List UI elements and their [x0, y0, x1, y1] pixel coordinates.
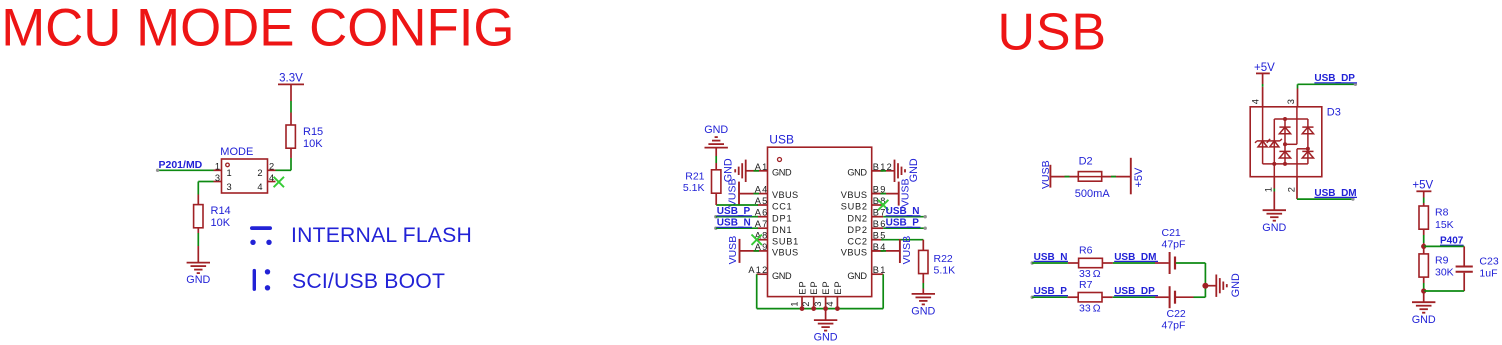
- svg-text:GND: GND: [814, 332, 838, 344]
- svg-text:+5V: +5V: [1412, 179, 1433, 191]
- svg-text:R21: R21: [685, 170, 704, 182]
- svg-text:P201/MD: P201/MD: [159, 159, 203, 171]
- svg-text:GND: GND: [1412, 314, 1436, 326]
- svg-text:VBUS: VBUS: [772, 190, 798, 200]
- svg-text:SUB1: SUB1: [772, 236, 798, 246]
- svg-text:4: 4: [269, 173, 274, 183]
- svg-text:EP: EP: [809, 281, 819, 294]
- svg-text:5.1K: 5.1K: [934, 264, 956, 276]
- svg-text:5.1K: 5.1K: [683, 182, 705, 194]
- svg-text:D3: D3: [1327, 106, 1341, 118]
- svg-text:1: 1: [227, 168, 232, 178]
- svg-text:D2: D2: [1079, 156, 1093, 168]
- svg-text:1: 1: [1263, 187, 1273, 192]
- svg-text:GND: GND: [772, 271, 792, 281]
- svg-text:DP1: DP1: [772, 213, 792, 223]
- svg-text:GND: GND: [186, 274, 210, 286]
- svg-text:DN1: DN1: [772, 225, 792, 235]
- svg-text:GND: GND: [847, 167, 867, 177]
- svg-text:SUB2: SUB2: [841, 202, 867, 212]
- svg-text:VUSB: VUSB: [901, 236, 913, 265]
- svg-text:4: 4: [825, 301, 835, 306]
- svg-text:3: 3: [813, 301, 823, 306]
- svg-text:R14: R14: [211, 205, 231, 217]
- svg-text:VUSB: VUSB: [727, 236, 739, 265]
- svg-text:EP: EP: [797, 281, 807, 294]
- svg-text:R6: R6: [1079, 245, 1093, 257]
- svg-text:INTERNAL FLASH: INTERNAL FLASH: [291, 224, 472, 247]
- svg-text:47pF: 47pF: [1162, 319, 1186, 331]
- svg-text:USB: USB: [769, 133, 794, 147]
- svg-text:2: 2: [269, 162, 274, 172]
- svg-text:R8: R8: [1435, 207, 1449, 219]
- svg-text:R9: R9: [1435, 255, 1449, 267]
- svg-text:SCI/USB BOOT: SCI/USB BOOT: [292, 270, 445, 293]
- svg-text:2: 2: [801, 301, 811, 306]
- svg-text:30K: 30K: [1435, 267, 1454, 279]
- svg-text:3.3V: 3.3V: [279, 73, 303, 85]
- svg-text:R22: R22: [934, 253, 953, 265]
- svg-text:C23: C23: [1479, 255, 1498, 267]
- svg-text:+5V: +5V: [1133, 167, 1145, 188]
- svg-text:DN2: DN2: [847, 213, 867, 223]
- svg-text:GND: GND: [772, 167, 792, 177]
- svg-text:GND: GND: [1262, 222, 1286, 234]
- svg-text:3: 3: [227, 182, 232, 192]
- svg-text:10K: 10K: [303, 138, 323, 150]
- svg-text:500mA: 500mA: [1075, 188, 1111, 200]
- svg-text:3: 3: [1286, 99, 1296, 104]
- svg-text:DP2: DP2: [847, 225, 867, 235]
- svg-text:GND: GND: [704, 124, 728, 136]
- svg-text:VBUS: VBUS: [841, 248, 867, 258]
- svg-text:EP: EP: [833, 281, 843, 294]
- svg-text:USB: USB: [998, 3, 1107, 61]
- svg-text:15K: 15K: [1435, 219, 1454, 231]
- svg-text:MODE: MODE: [220, 146, 253, 158]
- svg-text:4: 4: [1250, 99, 1260, 104]
- svg-text:GND: GND: [911, 306, 935, 318]
- svg-text:GND: GND: [1230, 273, 1242, 297]
- svg-text:VBUS: VBUS: [772, 248, 798, 258]
- svg-text:VUSB: VUSB: [900, 179, 912, 208]
- svg-text:EP: EP: [821, 281, 831, 294]
- svg-text:47pF: 47pF: [1162, 239, 1186, 251]
- svg-text:CC2: CC2: [847, 236, 867, 246]
- svg-text:CC1: CC1: [772, 202, 792, 212]
- svg-text:10K: 10K: [211, 217, 231, 229]
- svg-text:+5V: +5V: [1254, 62, 1275, 74]
- svg-text:4: 4: [257, 182, 262, 192]
- svg-text:C21: C21: [1162, 227, 1181, 239]
- svg-text:MCU MODE CONFIG: MCU MODE CONFIG: [1, 0, 514, 57]
- svg-text:1: 1: [215, 162, 220, 172]
- svg-text:1: 1: [789, 301, 799, 306]
- svg-text:A12: A12: [748, 265, 767, 275]
- svg-text:1uF: 1uF: [1479, 268, 1497, 280]
- svg-text:C22: C22: [1167, 308, 1186, 320]
- svg-text:GND: GND: [847, 271, 867, 281]
- svg-text:2: 2: [1287, 187, 1297, 192]
- svg-text:2: 2: [257, 168, 262, 178]
- svg-text:R15: R15: [303, 126, 323, 138]
- svg-text:R7: R7: [1079, 279, 1093, 291]
- svg-text:VUSB: VUSB: [726, 179, 738, 208]
- svg-text:33 Ω: 33 Ω: [1079, 302, 1101, 314]
- svg-text:VBUS: VBUS: [841, 190, 867, 200]
- svg-text:3: 3: [215, 173, 220, 183]
